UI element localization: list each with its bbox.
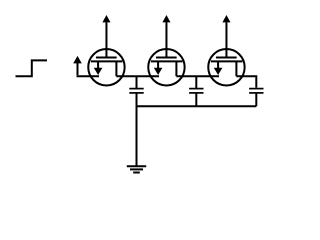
capacitor C3 [249,89,263,93]
transistor Q2 [148,15,184,86]
ground [127,166,146,172]
ground rail wire [137,105,257,107]
wire Q2 drain to Q3 source (node B) [176,75,219,77]
input clock arrow [73,56,82,75]
wire C2 bottom to ground rail [195,94,197,107]
input step waveform [16,60,48,76]
wire Q1 drain to Q2 source (node A) [116,75,159,77]
wire C1 bottom to ground rail [136,94,138,107]
wire ground rail to ground symbol [136,106,138,166]
transistor Q3 [208,15,244,86]
capacitor C1 [129,76,143,93]
wire Q3 drain to output corner (node C) [236,76,256,87]
wire C3 bottom to ground rail [255,94,257,107]
wire input node to Q1 source [77,75,100,77]
transistor Q1 [88,15,124,86]
capacitor C2 [189,76,203,93]
